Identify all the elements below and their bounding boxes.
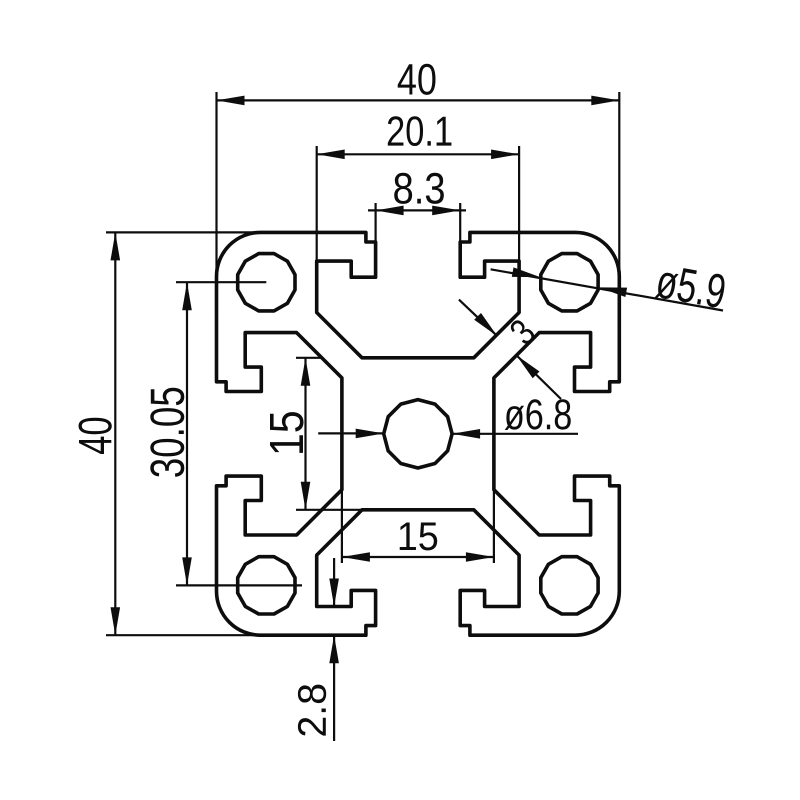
dim 30.05: text (150, 388, 184, 477)
dim 2.8 (wall thickness): lines and arrows (333, 558, 335, 607)
dim 2.8: text (298, 685, 326, 736)
dim 20.1: text (388, 116, 452, 146)
dim 8.3: dimension line (368, 209, 466, 211)
corner hole top-left (238, 254, 295, 311)
dim 40 top: text (398, 64, 436, 95)
center hole (384, 400, 452, 468)
dim D5.9: text (655, 264, 727, 310)
dim 15 vertical: dimension line (304, 358, 306, 510)
corner hole top-right (541, 254, 598, 311)
dim D6.8: text (505, 399, 571, 430)
dim 15 horizontal: dimension line (342, 556, 494, 558)
dim D6.8 center hole: leaders (318, 432, 384, 434)
corner hole bottom-right (541, 557, 598, 614)
dim 15 vertical: text (270, 412, 304, 453)
dim D5.9 leader through top-right hole (491, 269, 723, 310)
dim 40 left: text (79, 418, 112, 454)
dim 40 top: dimension line (217, 99, 620, 101)
profile outer contour with T-slot cavities (217, 232, 620, 635)
dim 30.05: dimension line (186, 282, 188, 585)
dim 15 horizontal: text (400, 523, 437, 551)
dim 30.05: extension lines (176, 281, 266, 283)
dim 3: text (508, 317, 537, 346)
dim 15 horizontal (core width): extension lines (341, 490, 343, 563)
dim 15 vertical (core height): extension ticks (296, 357, 322, 359)
dim 20.1: extension lines (316, 146, 318, 262)
dim 8.3: text (394, 173, 444, 204)
dim 3 (web thickness): leaders (459, 300, 498, 337)
corner hole bottom-left (238, 557, 295, 614)
dim 8.3: extension lines (375, 203, 377, 243)
dim 40 top: extension lines (215, 92, 217, 310)
dim 40 left: dimension line (114, 232, 116, 635)
dim 20.1: dimension line (317, 153, 519, 155)
dim 40 left: extension lines (106, 231, 265, 233)
